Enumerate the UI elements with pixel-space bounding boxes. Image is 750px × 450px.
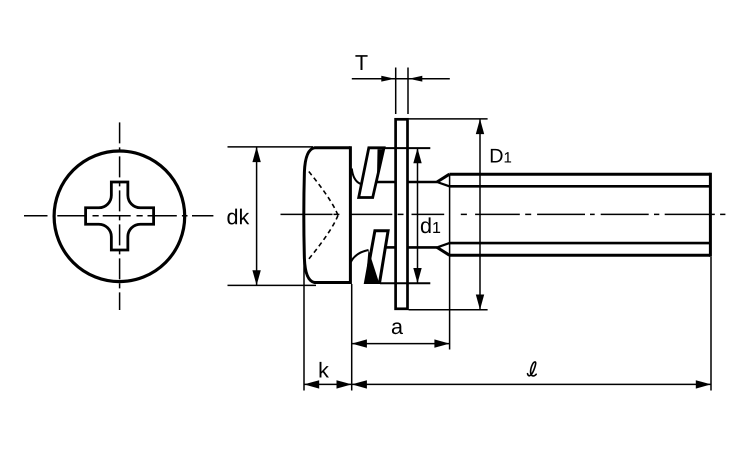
washer bore bottom line (380, 282, 430, 284)
dk bottom extension line (228, 284, 317, 286)
shank lower line right of washer (408, 246, 438, 249)
a dimension line (352, 343, 450, 345)
extension line head tangent left (303, 218, 305, 391)
recess depth dashed arc upper (309, 172, 338, 216)
spring washer upper helix arc (352, 169, 361, 184)
spring washer upper section outline (359, 148, 384, 198)
spring washer upper cut fill (377, 149, 384, 182)
dk dimension line (256, 147, 258, 286)
thread root top line (449, 185, 709, 188)
dk top arrow (252, 147, 260, 162)
pan head side profile (304, 148, 351, 283)
D1 dimension line (479, 119, 481, 310)
flat washer rectangle (396, 119, 408, 308)
label a (392, 322, 403, 334)
recess depth dashed arc lower (309, 215, 338, 259)
thread root bottom line (449, 242, 709, 245)
shank upper line left of washer (376, 181, 395, 184)
k left arrow (304, 380, 319, 388)
spring washer lower cut fill (366, 250, 379, 281)
d1 bottom arrow (413, 268, 421, 283)
dk bottom arrow (252, 270, 260, 285)
side view centerline (281, 213, 726, 215)
d1 top arrow (413, 148, 421, 163)
pan head bearing face (349, 146, 352, 284)
dk top extension line (228, 146, 314, 148)
k dimension line (304, 383, 352, 385)
spring washer lower section outline (366, 231, 389, 283)
thread runout upper crest taper (437, 174, 449, 182)
d1 dimension line (417, 148, 419, 283)
a left arrow (352, 339, 367, 347)
front view head circle (54, 151, 185, 282)
shank lower line left of washer (385, 246, 395, 249)
extension line washer left for T (395, 68, 397, 115)
T dimension left arrow (381, 76, 395, 82)
spring washer lower helix arc (351, 250, 369, 263)
thread runout upper root taper (437, 182, 449, 186)
extension line washer right for T (407, 68, 409, 115)
T dimension line (352, 78, 450, 80)
l right arrow (696, 380, 711, 388)
D1 top extension line (409, 118, 488, 120)
T dimension right arrow (409, 76, 423, 82)
l left arrow (352, 380, 367, 388)
a right arrow (434, 339, 449, 347)
thread crest top line (449, 173, 710, 176)
D1 bottom arrow (476, 295, 484, 310)
shank upper line right of washer (408, 181, 438, 184)
extension line thread start (449, 174, 451, 349)
D1 bottom extension line (409, 309, 488, 311)
thread crest bottom line (449, 254, 710, 257)
front view vertical centerline (119, 122, 121, 310)
washer bore top line (384, 147, 430, 149)
extension line head face (351, 284, 353, 391)
label dk (227, 209, 249, 225)
label d1 (421, 217, 440, 233)
l dimension line (352, 383, 711, 385)
thread runout lower crest taper (437, 247, 449, 255)
label T (355, 55, 367, 70)
thread runout lower root taper (437, 243, 449, 247)
D1 top arrow (476, 119, 484, 134)
front view horizontal centerline (24, 215, 213, 217)
label D1 (491, 149, 511, 163)
k right arrow (337, 380, 352, 388)
phillips recess cross (86, 182, 154, 250)
label k (320, 362, 329, 378)
label script ell (528, 362, 537, 376)
extension line shank end (710, 257, 712, 391)
shank end face (709, 173, 712, 257)
